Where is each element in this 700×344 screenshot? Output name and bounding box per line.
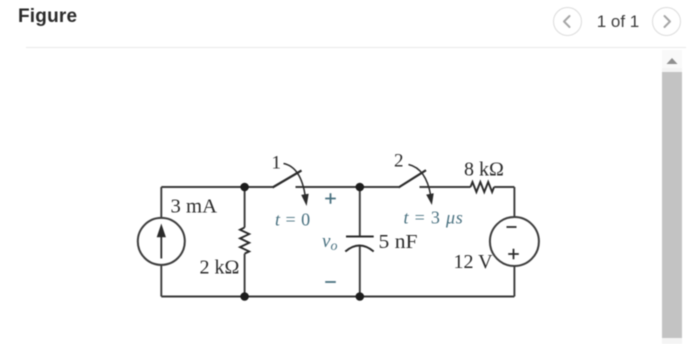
switch 1 blade bbox=[273, 171, 302, 188]
svg-text:5 nF: 5 nF bbox=[379, 231, 418, 253]
node dot top of R1 bbox=[240, 183, 249, 192]
node dot bottom of C1 bbox=[356, 292, 365, 301]
header divider line bbox=[26, 47, 686, 48]
wire capacitor branch upper bbox=[359, 187, 361, 236]
svg-text:8 kΩ: 8 kΩ bbox=[464, 159, 504, 181]
voltage source V1 12 V bbox=[490, 217, 539, 266]
header title "Figure" bbox=[18, 6, 77, 28]
capacitor plus polarity mark bbox=[325, 193, 336, 204]
wire 2k-ohm branch upper bbox=[244, 187, 246, 228]
switch 1 motion arrow bbox=[284, 164, 309, 207]
wire right side lower bbox=[513, 266, 515, 297]
wire 2k-ohm branch lower bbox=[244, 254, 246, 297]
wire top-right to resistor bbox=[420, 186, 471, 188]
wire left side upper bbox=[160, 187, 162, 218]
svg-text:1: 1 bbox=[272, 153, 282, 174]
svg-text:vo: vo bbox=[322, 231, 337, 254]
wire capacitor branch lower bbox=[359, 246, 361, 297]
next page button bbox=[652, 7, 681, 36]
svg-text:2: 2 bbox=[394, 151, 404, 172]
prev page button bbox=[553, 7, 582, 36]
capacitor C1 5 nF plates bbox=[345, 237, 373, 252]
svg-text:2 kΩ: 2 kΩ bbox=[200, 257, 240, 279]
page indicator "1 of 1" bbox=[593, 12, 643, 32]
svg-text:3 mA: 3 mA bbox=[171, 196, 218, 218]
wire resistor to top-right corner bbox=[494, 186, 514, 188]
node dot top of C1 bbox=[356, 183, 365, 192]
node dot bottom of R1 bbox=[240, 292, 249, 301]
svg-text:t = 0: t = 0 bbox=[275, 210, 311, 230]
wire top-middle horizontal bbox=[296, 186, 399, 188]
wire right side upper bbox=[513, 187, 515, 217]
wire top-left horizontal bbox=[161, 186, 272, 188]
current source I1 3 mA bbox=[138, 218, 185, 265]
capacitor minus polarity mark bbox=[325, 281, 336, 283]
switch 2 motion arrow bbox=[409, 165, 434, 206]
wire left side lower bbox=[160, 265, 162, 297]
resistor R2 8 kOhm (horizontal zigzag) bbox=[471, 182, 495, 192]
scrollbar thumb bbox=[662, 72, 682, 338]
scrollbar track bbox=[662, 50, 682, 344]
resistor R1 2 kOhm (vertical zigzag) bbox=[240, 228, 249, 254]
svg-text:12 V: 12 V bbox=[454, 251, 494, 273]
svg-text:t = 3 μs: t = 3 μs bbox=[404, 208, 464, 228]
scrollbar up button bbox=[662, 50, 682, 68]
switch 2 blade bbox=[399, 170, 427, 187]
wire bottom horizontal bbox=[161, 296, 514, 298]
